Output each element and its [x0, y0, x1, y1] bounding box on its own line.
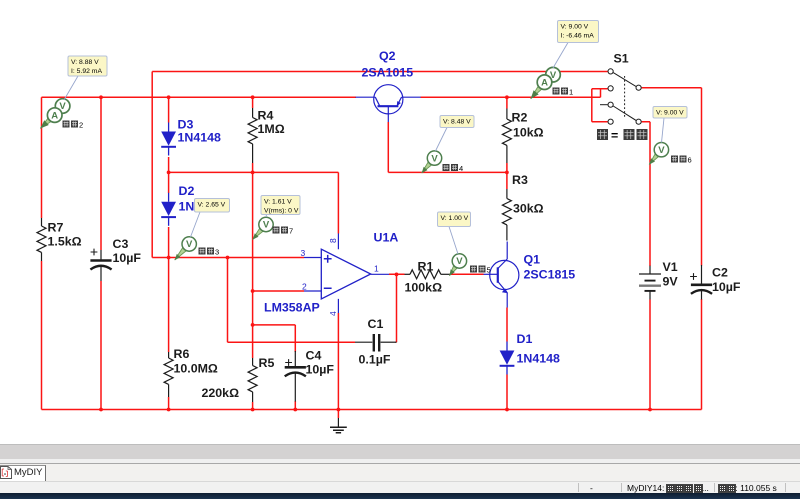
probe label 探针2 [63, 121, 70, 128]
svg-text:R4: R4 [258, 109, 274, 123]
resistor R4 1M [248, 108, 257, 163]
op-amp U1A LM358AP [304, 234, 389, 314]
transistor Q1 2SC1815 [484, 242, 519, 308]
wire: D3/D2/R6 column [168, 97, 170, 409]
probe 3 value balloon [191, 199, 230, 238]
windows taskbar sliver [0, 493, 800, 499]
svg-text:V: 1.00 V: V: 1.00 V [441, 215, 469, 222]
wire: left column with R7 [41, 97, 43, 409]
svg-text:10µF: 10µF [113, 251, 142, 265]
svg-text:2SA1015: 2SA1015 [362, 66, 414, 80]
svg-text:V: 2.65 V: V: 2.65 V [198, 202, 226, 209]
svg-text:8: 8 [328, 238, 338, 243]
wire: R2/R3/Q1/D1 column [506, 97, 508, 409]
svg-text:10µF: 10µF [712, 280, 741, 294]
svg-text:Q2: Q2 [379, 49, 396, 63]
svg-text:3: 3 [301, 248, 306, 258]
probe label 探针5 [470, 266, 477, 273]
svg-text:4: 4 [328, 311, 338, 316]
status bar [0, 481, 800, 494]
svg-text:I: 5.92 mA: I: 5.92 mA [71, 68, 102, 75]
svg-text:4: 4 [459, 164, 463, 173]
svg-text:R3: R3 [512, 173, 528, 187]
probe 4 value balloon [436, 116, 475, 152]
probe label 探针6 [671, 156, 678, 163]
svg-text:LM358AP: LM358AP [264, 301, 320, 315]
svg-text:U1A: U1A [374, 231, 399, 245]
svg-text:5: 5 [487, 266, 491, 275]
svg-text:V: V [456, 256, 463, 267]
svg-text:220kΩ: 220kΩ [202, 386, 240, 400]
probe 6 value balloon [653, 107, 687, 143]
svg-text:0.1µF: 0.1µF [359, 353, 391, 367]
wire: op-amp output row [389, 273, 484, 275]
probe label 探针1 [553, 88, 560, 95]
probe 2 value balloon [64, 56, 107, 100]
horizontal scrollbar strip [0, 444, 800, 459]
svg-text:1N: 1N [179, 200, 195, 214]
probe label 探针3 [199, 248, 206, 255]
svg-text:1.5kΩ: 1.5kΩ [48, 235, 82, 249]
ground symbol [330, 418, 347, 433]
svg-text:R6: R6 [174, 347, 190, 361]
wire: R4/R5 column [252, 97, 254, 409]
svg-text:R1: R1 [418, 260, 434, 274]
capacitor C3 10uF [90, 249, 111, 281]
diode D1 1N4148 [500, 342, 515, 375]
wire: Q2 base to R2/R3 divider [388, 122, 507, 172]
svg-text:A: A [541, 77, 548, 88]
svg-text:3: 3 [215, 248, 219, 257]
resistor R2 10k [502, 109, 511, 164]
svg-text:I: -6.46 mA: I: -6.46 mA [561, 33, 595, 40]
svg-text:D2: D2 [179, 184, 195, 198]
svg-text:D3: D3 [178, 118, 194, 132]
svg-text:V: V [658, 145, 665, 156]
diode D3 1N4148 [161, 123, 176, 156]
capacitor C2 10uF [690, 265, 712, 300]
switch S1 [600, 69, 641, 124]
probe 7 value balloon [261, 196, 300, 218]
svg-text:R7: R7 [48, 221, 64, 235]
svg-text:V: 9.00 V: V: 9.00 V [656, 110, 684, 117]
wire: op-amp pin4 to ground [337, 313, 339, 418]
probe label 探针7 [273, 227, 280, 234]
svg-text:C1: C1 [368, 317, 384, 331]
svg-text:1MΩ: 1MΩ [258, 122, 285, 136]
svg-text:1: 1 [374, 264, 379, 274]
battery V1 9V [639, 266, 661, 300]
svg-text:C4: C4 [306, 349, 322, 363]
svg-text:V: V [263, 220, 270, 231]
probe 5 (V) [449, 254, 466, 276]
wire: V1 column [642, 122, 650, 410]
svg-text:2SC1815: 2SC1815 [524, 268, 576, 282]
capacitor C4 10uF [285, 351, 306, 402]
svg-text:V: 8.88 V: V: 8.88 V [71, 59, 99, 66]
svg-text:7: 7 [289, 227, 293, 236]
wire: C1 feedback branch [228, 258, 397, 343]
resistor R3 30k [502, 189, 511, 241]
transistor Q2 2SA1015 [356, 85, 421, 122]
sheet tab bar [0, 464, 800, 481]
svg-text:1N4148: 1N4148 [178, 131, 222, 145]
svg-text:V: 9.00 V: V: 9.00 V [561, 24, 589, 31]
svg-text:2: 2 [302, 282, 307, 292]
svg-text:30kΩ: 30kΩ [513, 202, 544, 216]
probe 3 (V) [175, 237, 197, 260]
svg-text:6: 6 [688, 156, 692, 165]
svg-text:10µF: 10µF [306, 363, 335, 377]
svg-text:10kΩ: 10kΩ [513, 126, 544, 140]
svg-text:V: V [431, 153, 438, 164]
tab page icon [0, 466, 13, 479]
wire: main horizontal net y=97 [42, 89, 608, 122]
wire: top net from node A to S1 pin1 [152, 72, 607, 258]
svg-text:2: 2 [79, 121, 83, 130]
probe 5 value balloon [438, 212, 471, 254]
probe 4 (V) [422, 151, 442, 173]
probe 1 (A/V) [531, 67, 561, 98]
resistor R1 100k [405, 270, 450, 279]
svg-text:R2: R2 [512, 111, 528, 125]
S1 key caption 键 = 空格 [597, 129, 608, 140]
probe label 探针4 [443, 164, 450, 171]
probe 2 (A/V) [40, 99, 70, 129]
wire: supply rail to op-amp pin8 [169, 172, 339, 233]
svg-text:V1: V1 [663, 260, 678, 274]
svg-text:V: 8.48 V: V: 8.48 V [443, 119, 471, 126]
svg-text:V: 1.61 V: V: 1.61 V [264, 199, 292, 206]
svg-text:9V: 9V [663, 275, 679, 289]
wire: C3 column [100, 97, 102, 409]
svg-text:1: 1 [569, 88, 573, 97]
svg-text:R5: R5 [259, 356, 275, 370]
diode D2 1N4148 [161, 193, 176, 226]
resistor R7 1.5k [37, 218, 46, 261]
svg-text:100kΩ: 100kΩ [405, 281, 443, 295]
svg-text:=: = [611, 129, 618, 143]
svg-text:S1: S1 [614, 52, 629, 66]
probe 6 (V) [649, 143, 668, 165]
wire: bottom ground net [42, 409, 702, 411]
svg-text:V(rms): 0 V: V(rms): 0 V [264, 208, 299, 215]
capacitor C1 0.1uF [355, 334, 397, 352]
resistor R6 10.0M [164, 352, 173, 397]
svg-text:C3: C3 [113, 237, 129, 251]
resistor R5 220k [248, 358, 257, 402]
svg-text:1N4148: 1N4148 [517, 352, 561, 366]
op-amp pin numbers [301, 238, 380, 316]
wire: inverting input branch to C4 [253, 291, 304, 410]
wire: C2 column [642, 88, 702, 410]
svg-text:V: V [186, 239, 193, 250]
svg-text:C2: C2 [712, 266, 728, 280]
svg-text:Q1: Q1 [524, 253, 541, 267]
wire junction dots [99, 95, 652, 411]
svg-text:10.0MΩ: 10.0MΩ [174, 362, 218, 376]
svg-text:A: A [51, 110, 58, 121]
probe 1 value balloon [553, 21, 599, 69]
probe 7 (V) [253, 217, 273, 239]
svg-text:D1: D1 [517, 332, 533, 346]
